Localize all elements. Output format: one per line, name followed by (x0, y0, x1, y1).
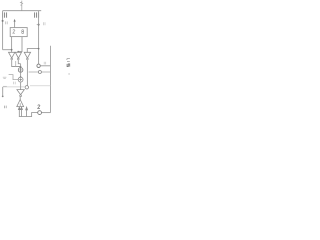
pin label 2 (13, 30, 15, 34)
mixer M1 (18, 77, 23, 82)
crystal bar inside O1 (20, 68, 22, 72)
label 1 (44, 62, 46, 65)
wire: box pin 1 down (11, 37, 13, 53)
label 16 (6, 21, 8, 24)
wire: source drop (2, 87, 4, 96)
caption numeral 2 (rotated) (67, 64, 70, 67)
arrow to detector (26, 107, 28, 116)
node 112 (right hatch marks) (35, 12, 39, 17)
wire: O1 to mixer (20, 72, 22, 77)
inverter A1 (9, 52, 15, 58)
wire: lamp branch (29, 71, 51, 73)
wire: jog to oscillator (15, 61, 17, 67)
wire: right feed rail (50, 46, 52, 113)
wire: A3 output down (26, 60, 28, 86)
lamp L1 on branch (38, 71, 41, 74)
pin label 8 (22, 30, 24, 32)
node 111 (left hatch marks) (3, 12, 7, 17)
plus inside mixer (19, 79, 22, 81)
speck right margin (68, 73, 70, 74)
wire: right rail branch to amp A3 (27, 49, 38, 53)
terminal T1 (37, 64, 40, 67)
arrow pair under arrowhead (18, 107, 22, 116)
label 15 (44, 22, 45, 25)
wire: A4 output (19, 97, 21, 100)
background (0, 0, 72, 120)
wire: faint input lead to D1 (3, 86, 25, 88)
wire: mixer to amp A4 (20, 82, 22, 90)
wire: faint lower branch (30, 85, 51, 87)
junction dot A1 input (11, 49, 13, 51)
block U1 (10, 28, 27, 37)
mark inside arrowhead (19, 103, 21, 106)
bubble A1 (11, 58, 13, 60)
tick at junction (37, 24, 39, 26)
wire: A2 output (18, 60, 20, 64)
junction dot pin2 (17, 51, 19, 53)
label 2 (38, 105, 40, 109)
flow arrowhead (large, open) (17, 100, 24, 107)
bubble A3 (27, 58, 29, 60)
wire: left rail to amp A1 (3, 49, 12, 51)
arrow on lead (3, 85, 7, 87)
wire: right vertical rail (38, 11, 40, 64)
wire: bottom return (19, 113, 38, 117)
junction dot branch (38, 48, 40, 50)
wire: into oscillator (20, 64, 22, 68)
input label (3, 77, 7, 78)
input corner wire (9, 75, 19, 80)
pin arrow into block U1 (14, 21, 16, 28)
detector circle D1 (25, 86, 28, 89)
junction dot U corner (20, 66, 22, 68)
wire: T1 lead (40, 65, 50, 67)
oscillator O1 (18, 68, 23, 73)
junction dot on left rail (2, 20, 4, 22)
antenna / terminal symbol at top center (20, 1, 23, 11)
label 10 (14, 82, 16, 85)
wire: T2 lead right (42, 112, 51, 114)
junction dot on right rail (38, 24, 40, 26)
source terminal dot (2, 96, 4, 98)
caption FIG. (rotated, page margin) (67, 59, 70, 62)
bubble A2 (17, 58, 19, 60)
inverter A4 (17, 90, 24, 95)
inverter A3 (24, 52, 30, 58)
terminal T2 (38, 111, 42, 115)
wire: A1 output (12, 60, 21, 67)
inverter A2 (15, 52, 21, 58)
wire: left vertical rail (2, 11, 4, 50)
wire: box pin 2 down (18, 37, 22, 53)
label bottom-left (5, 106, 7, 109)
bubble A4 (20, 95, 22, 97)
junction dot above mixer (20, 76, 22, 78)
wire: top supply bus (3, 10, 42, 12)
